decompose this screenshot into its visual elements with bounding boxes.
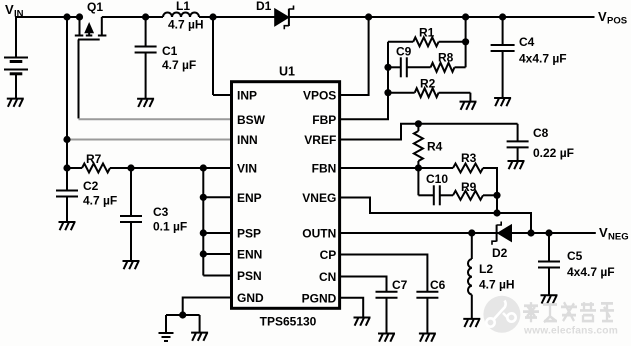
wire VNEG pin to output <box>340 198 531 234</box>
svg-text:PSP: PSP <box>237 227 261 241</box>
transistor Q1 <box>75 17 107 40</box>
node junction FBN / R4 / C10 branch <box>415 164 422 171</box>
svg-text:Q1: Q1 <box>87 0 103 14</box>
node junction divider / C9 row <box>384 64 391 71</box>
wire top rail Q1 drain to VPOS <box>102 16 595 18</box>
svg-text:ENP: ENP <box>237 191 262 205</box>
svg-text:BSW: BSW <box>237 113 266 127</box>
capacitor C1 label <box>162 44 196 72</box>
wire top rail VIN to Q1 <box>15 16 80 18</box>
node junction bus / ENN <box>200 250 207 257</box>
capacitor C10 <box>418 185 453 205</box>
svg-text:U1: U1 <box>279 65 295 79</box>
resistor R9 label <box>461 180 477 194</box>
pin FBP <box>312 113 336 127</box>
resistor R1 label <box>419 26 435 40</box>
op-amp U1 label <box>279 65 295 79</box>
pin VNEG <box>302 191 336 205</box>
node junction VREF / R4 <box>415 120 422 127</box>
wire ENP stub <box>203 196 231 198</box>
svg-text:VPOS: VPOS <box>303 89 336 103</box>
ground L2 <box>463 319 480 327</box>
diode D2 <box>492 222 512 245</box>
ground C8 <box>508 161 525 169</box>
svg-text:4.7 µH: 4.7 µH <box>479 278 515 292</box>
pin CN <box>319 270 336 284</box>
svg-text:V: V <box>599 225 608 240</box>
svg-text:4.7 µH: 4.7 µH <box>168 18 204 32</box>
resistor R2 label <box>420 77 436 91</box>
svg-text:V: V <box>5 2 14 17</box>
wire input bus vertical <box>66 17 68 168</box>
svg-text:D2: D2 <box>492 246 508 260</box>
ground C5 <box>541 295 558 303</box>
svg-text:PGND: PGND <box>302 291 337 305</box>
pin ENN <box>237 248 262 262</box>
pin VIN <box>237 162 257 176</box>
pin ENP <box>237 191 262 205</box>
capacitor C2 <box>56 168 78 222</box>
svg-text:C8: C8 <box>533 126 549 140</box>
diode D2 label <box>492 246 508 260</box>
svg-text:C10: C10 <box>426 172 448 186</box>
wire BSW to Q1 gate <box>79 118 232 120</box>
pin FBN <box>312 162 337 176</box>
resistor R9 <box>453 191 497 200</box>
resistor R7 label <box>86 152 102 166</box>
capacitor C10 label <box>426 172 448 186</box>
capacitor C9 <box>388 57 431 77</box>
wire rail to INP pin <box>213 17 232 95</box>
node junction OUTN / C5 <box>545 229 552 236</box>
node junction bus / INN <box>63 136 70 143</box>
resistor R7 <box>82 164 110 173</box>
svg-text:INN: INN <box>237 133 258 147</box>
wire R1R8 vertical to rail <box>465 17 467 67</box>
wire INN to input bus <box>67 139 232 141</box>
resistor R8 label <box>438 51 454 65</box>
svg-text:POS: POS <box>607 16 627 27</box>
svg-text:FBP: FBP <box>312 113 336 127</box>
node junction bus / ENP <box>200 194 207 201</box>
node junction rail / input bus <box>63 13 70 20</box>
capacitor C8 label <box>533 126 574 160</box>
wire FBP pin to divider <box>340 42 388 120</box>
svg-text:4.7 µF: 4.7 µF <box>83 194 117 208</box>
node VIN supply label <box>5 2 24 20</box>
pin CP <box>320 248 337 262</box>
capacitor C3 <box>120 168 142 261</box>
wire FBN pin to R3 <box>340 167 453 169</box>
ground C7 <box>378 334 395 342</box>
ground PGND <box>354 318 371 326</box>
capacitor C2 label <box>83 179 117 208</box>
pin PSP <box>237 227 261 241</box>
svg-text:VREF: VREF <box>304 133 336 147</box>
battery input source <box>4 58 28 74</box>
capacitor C3 label <box>153 205 187 234</box>
svg-text:R3: R3 <box>461 151 477 165</box>
svg-text:C7: C7 <box>392 278 408 292</box>
svg-text:C2: C2 <box>83 179 99 193</box>
ground GND chassis <box>191 333 208 341</box>
wire VPOS pin to rail <box>340 17 369 95</box>
svg-text:C5: C5 <box>567 249 583 263</box>
node junction rail / C1 <box>142 13 149 20</box>
capacitor C7 label <box>392 278 408 292</box>
svg-text:L1: L1 <box>176 0 190 13</box>
wire GND pin to grounds <box>166 298 232 334</box>
svg-text:ENN: ENN <box>237 248 262 262</box>
svg-text:D1: D1 <box>256 0 272 13</box>
pin PSN <box>237 269 262 283</box>
pin OUTN <box>302 227 336 241</box>
node junction divider / R2 row <box>384 89 391 96</box>
wire R9 junction down <box>496 195 498 213</box>
node junction VNEG wire / OUTN rail <box>527 229 534 236</box>
node junction rail / INP <box>209 13 216 20</box>
svg-text:0.22 µF: 0.22 µF <box>533 146 574 160</box>
svg-text:OUTN: OUTN <box>302 227 336 241</box>
node junction bus / R7 / C2 <box>63 164 70 171</box>
svg-text:NEG: NEG <box>608 232 629 243</box>
node junction rail / R1 R8 network <box>462 13 469 20</box>
resistor R3 label <box>461 151 477 165</box>
wire ENN stub <box>203 253 231 255</box>
node junction bus / PSP <box>200 229 207 236</box>
ground battery <box>7 99 24 107</box>
capacitor C4 <box>491 17 515 98</box>
svg-text:C9: C9 <box>396 45 412 59</box>
inductor L1 <box>163 13 199 17</box>
pin PGND <box>302 291 337 305</box>
svg-text:CP: CP <box>320 248 337 262</box>
wire PGND pin to ground <box>340 298 363 318</box>
diode D1 label <box>256 0 272 13</box>
resistor R4 <box>414 124 423 168</box>
pin INN <box>237 133 258 147</box>
wire CN pin to C7 <box>340 277 387 292</box>
ground C1 <box>137 99 154 107</box>
svg-text:C1: C1 <box>162 44 178 58</box>
svg-text:4x4.7 µF: 4x4.7 µF <box>567 265 615 279</box>
capacitor C6 <box>416 292 438 334</box>
node junction rail / C4 <box>499 13 506 20</box>
op-amp U1 part number <box>260 315 317 329</box>
node junction GND wire <box>179 311 186 318</box>
capacitor C6 label <box>430 278 446 292</box>
wire CP pin to C6 <box>340 255 427 292</box>
wire battery negative to ground <box>15 74 17 99</box>
wire PSP stub <box>203 232 231 234</box>
watermark elecfans logo <box>483 296 618 337</box>
capacitor C9 label <box>396 45 412 59</box>
resistor R8 <box>431 63 466 72</box>
pin GND <box>237 291 264 305</box>
wire VIN vertical to battery <box>15 16 17 58</box>
svg-text:C3: C3 <box>153 205 169 219</box>
pin VPOS <box>303 89 336 103</box>
node junction OUTN / L2 <box>468 229 475 236</box>
resistor R2 <box>388 88 470 101</box>
inductor L2 <box>468 233 472 319</box>
svg-text:CN: CN <box>319 270 336 284</box>
capacitor C5 label <box>567 249 615 279</box>
svg-text:V: V <box>598 9 607 24</box>
node junction R1 right / vertical <box>462 38 469 45</box>
wire R7 to VIN pin <box>67 167 232 169</box>
ground R2 <box>460 102 477 110</box>
op-amp U1 TPS65130 body <box>232 82 340 309</box>
resistor R1 <box>388 37 466 46</box>
svg-text:VIN: VIN <box>237 162 257 176</box>
svg-text:C4: C4 <box>519 35 535 49</box>
capacitor C8 <box>507 124 529 161</box>
pin VREF <box>304 133 336 147</box>
wire VREF pin to C8 <box>340 124 518 140</box>
inductor L2 label <box>479 262 515 292</box>
ground C6 <box>419 334 436 342</box>
wire enable bus vertical <box>202 168 204 276</box>
wire FBN to C10 row <box>417 168 419 195</box>
svg-text:www.elecfans.com: www.elecfans.com <box>523 326 618 337</box>
resistor R3 <box>453 164 497 196</box>
capacitor C4 label <box>519 35 567 66</box>
wire Q1 gate to BSW <box>78 40 80 119</box>
pin BSW <box>237 113 266 127</box>
svg-text:4.7 µF: 4.7 µF <box>162 58 196 72</box>
node junction rail / Q1 source <box>76 13 83 20</box>
node junction VIN wire / C3 <box>127 164 134 171</box>
capacitor C7 <box>376 292 398 334</box>
node junction rail / VPOS pin wire <box>365 13 372 20</box>
svg-text:L2: L2 <box>479 262 493 276</box>
svg-text:TPS65130: TPS65130 <box>260 315 317 329</box>
svg-text:4x4.7 µF: 4x4.7 µF <box>519 52 567 66</box>
pin INP <box>237 89 257 103</box>
svg-text:VNEG: VNEG <box>302 191 336 205</box>
svg-text:PSN: PSN <box>237 269 262 283</box>
capacitor C1 <box>135 17 157 99</box>
ground C4 <box>494 98 511 106</box>
ground C3 <box>123 261 140 269</box>
node junction R3 R9 right <box>493 192 500 199</box>
node junction VNEG wire / feedback <box>493 209 500 216</box>
diode D1 <box>275 6 294 30</box>
svg-text:FBN: FBN <box>312 162 337 176</box>
svg-text:INP: INP <box>237 89 257 103</box>
ground C2 <box>59 222 76 230</box>
ground GND earth <box>159 333 174 341</box>
node VPOS terminal label <box>598 9 627 27</box>
capacitor C5 <box>538 233 560 295</box>
wire OUTN rail <box>340 232 596 234</box>
wire PSN stub <box>203 275 231 277</box>
node junction VIN wire / enable bus <box>200 164 207 171</box>
transistor Q1 label <box>87 0 103 14</box>
inductor L1 label <box>168 0 204 32</box>
svg-text:R4: R4 <box>427 140 443 154</box>
svg-text:C6: C6 <box>430 278 446 292</box>
svg-text:GND: GND <box>237 291 264 305</box>
resistor R4 label <box>427 140 443 154</box>
svg-text:0.1 µF: 0.1 µF <box>153 220 187 234</box>
node VNEG terminal label <box>599 225 629 243</box>
